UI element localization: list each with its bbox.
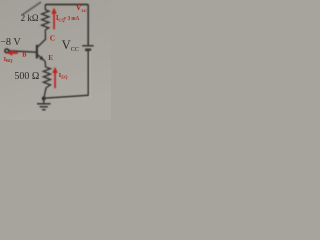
resistor 2 kΩ (collector)	[42, 5, 49, 30]
wire: right branch upper (rail to battery)	[87, 5, 89, 46]
wire: collector lead	[37, 30, 45, 48]
transistor Q (bar)	[36, 45, 38, 59]
red arrow ICQ (collector current)	[51, 8, 57, 30]
battery VCC long plate	[82, 45, 93, 47]
red arrow IBQ (base current)	[7, 50, 18, 55]
wire: emitter resistor bottom lead	[44, 88, 46, 99]
wire: base lead	[9, 51, 37, 53]
resistor 500 Ω (emitter)	[43, 67, 50, 88]
svg-text:E: E	[48, 54, 53, 62]
highlight (photo emboss)	[44, 51, 90, 100]
wire: bottom return	[44, 95, 89, 98]
svg-text:= 3 mA: = 3 mA	[64, 15, 80, 22]
red arrow IEQ (emitter current)	[52, 67, 58, 89]
wire: top Vcc rail	[45, 4, 88, 6]
svg-text:C: C	[50, 33, 55, 42]
battery VCC short plate	[85, 48, 91, 51]
background paper	[0, 0, 111, 120]
svg-text:2 kΩ: 2 kΩ	[21, 13, 39, 23]
node: ground junction dot	[42, 96, 46, 100]
stray diagonal mark (photo artifact, top-left)	[22, 2, 41, 15]
svg-text:−8 V: −8 V	[0, 37, 21, 48]
ground symbol	[37, 99, 51, 110]
transistor emitter with arrow	[37, 54, 45, 61]
terminal circle (-8 V input)	[5, 49, 9, 53]
svg-text:B: B	[22, 52, 27, 59]
wire: right branch lower (battery to bottom)	[87, 51, 89, 96]
wire: emitter lead	[44, 61, 46, 67]
svg-text:500 Ω: 500 Ω	[14, 71, 39, 82]
